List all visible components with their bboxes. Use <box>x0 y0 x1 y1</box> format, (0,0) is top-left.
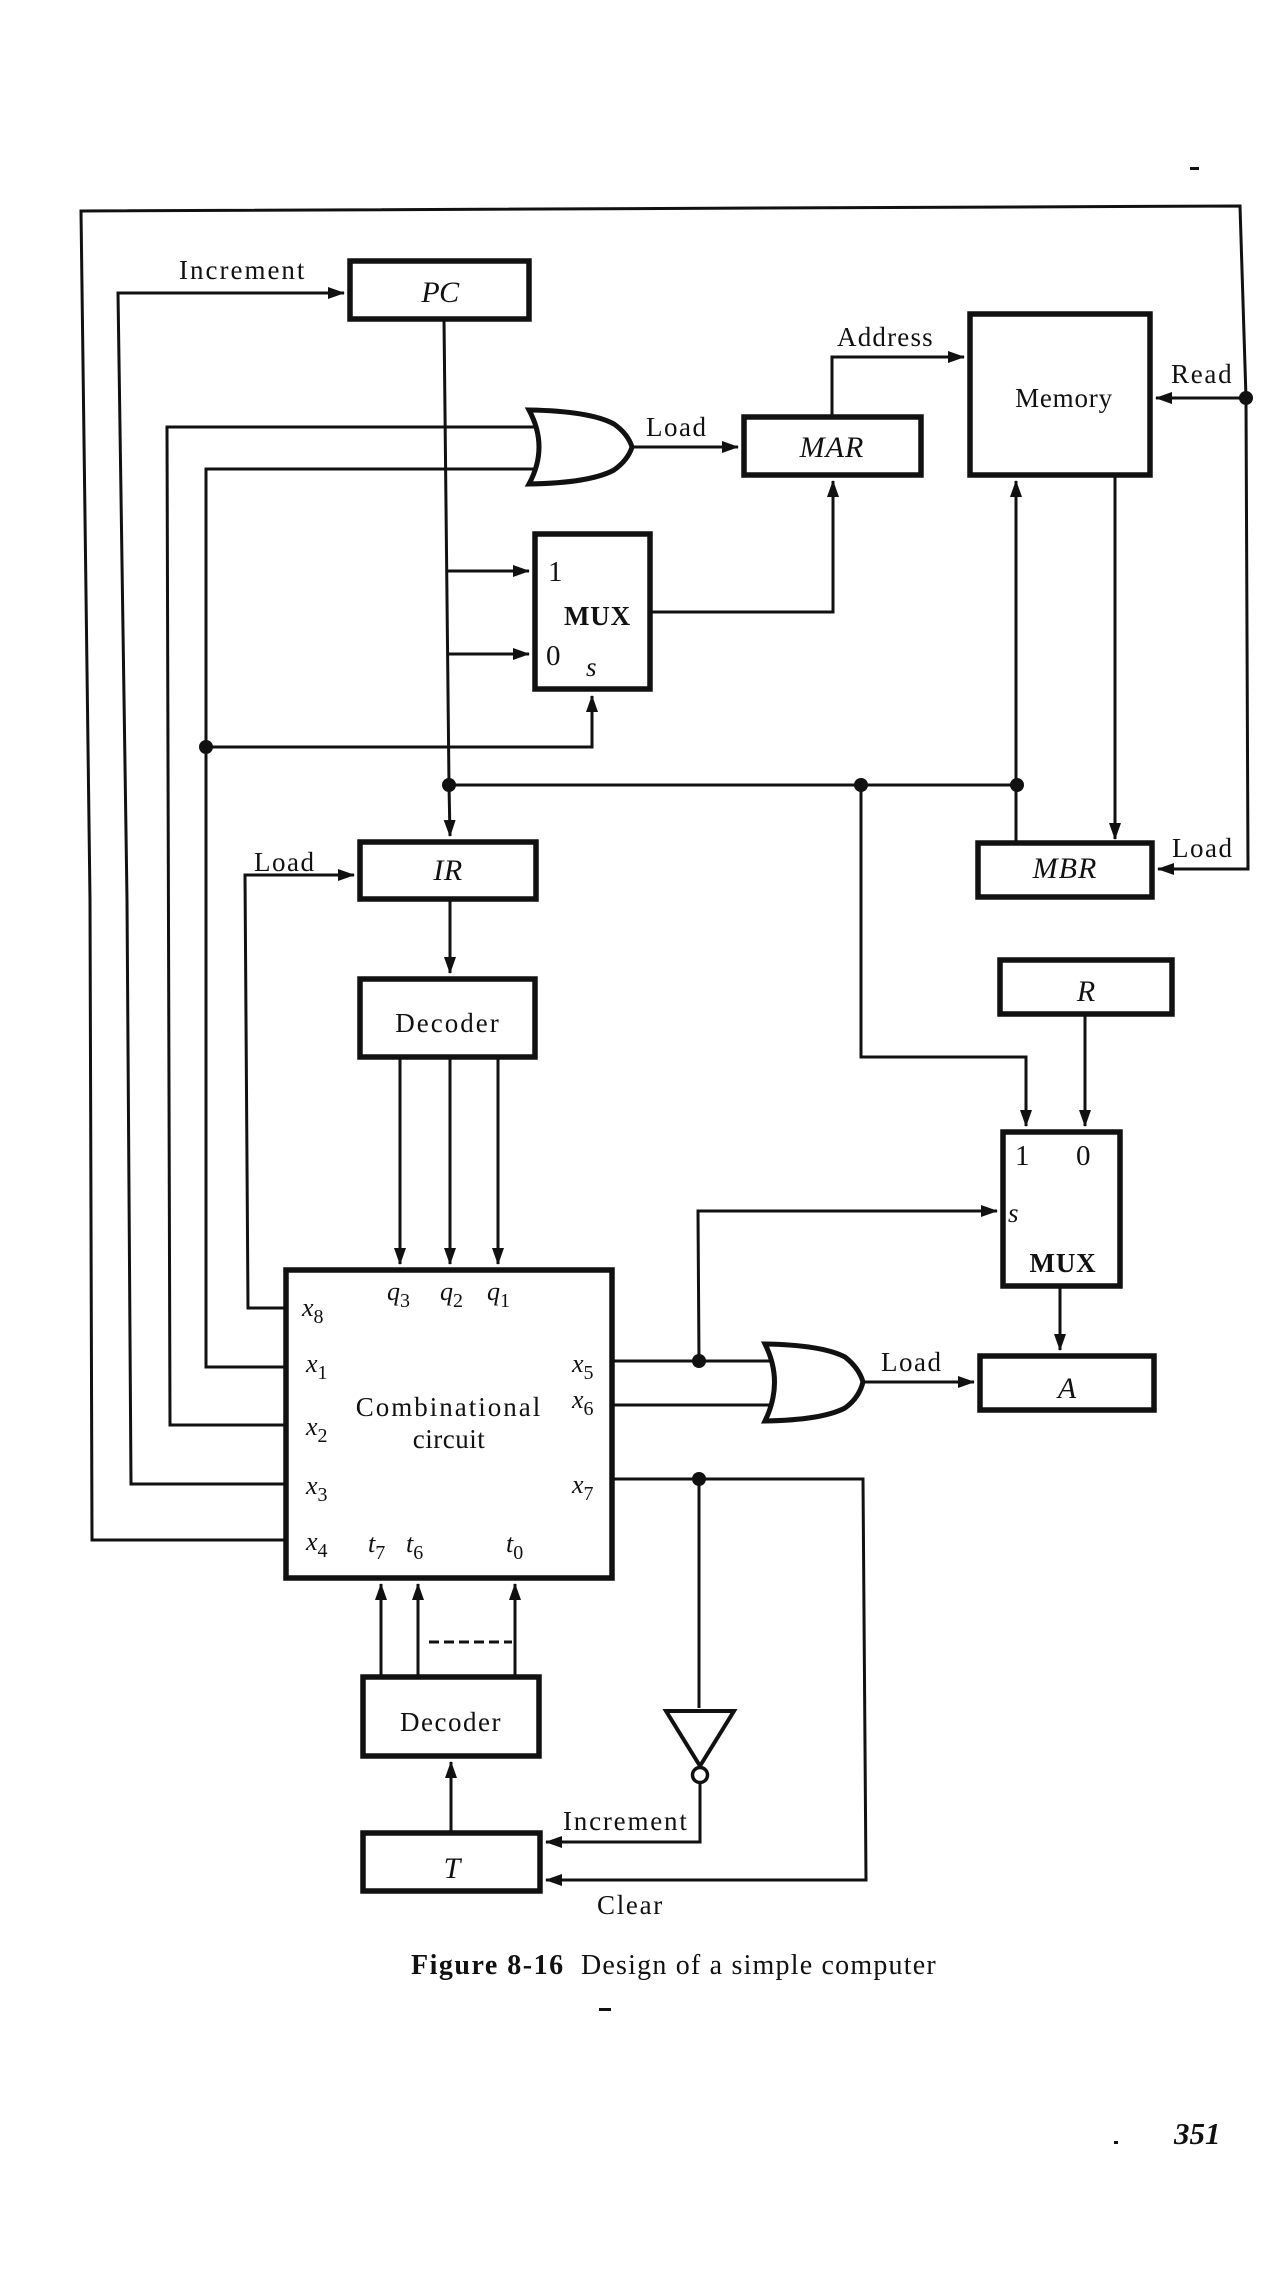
svg-text:351: 351 <box>1173 2116 1221 2151</box>
wire Read into Memory <box>1156 397 1246 400</box>
svg-text:PC: PC <box>420 276 460 309</box>
junction bus/MUX2 <box>854 778 868 792</box>
wire q3 Decoder1 to circuit <box>399 1057 402 1264</box>
wire q2 Decoder1 to circuit <box>449 1057 452 1264</box>
svg-text:MUX: MUX <box>1030 1248 1097 1278</box>
wire bus to MUX1 input 0 <box>447 653 529 656</box>
speck under caption <box>599 2008 611 2011</box>
svg-text:Decoder: Decoder <box>400 1707 502 1737</box>
svg-text:Decoder: Decoder <box>395 1008 500 1038</box>
svg-text:Memory: Memory <box>1015 383 1113 413</box>
wire OR2 output Load to A <box>863 1381 974 1384</box>
svg-text:Load: Load <box>881 1347 942 1377</box>
block Decoder2 <box>363 1677 539 1756</box>
svg-text:MUX: MUX <box>564 601 631 631</box>
wire IR to Decoder1 <box>449 899 452 973</box>
block Combinational circuit <box>286 1270 612 1578</box>
register MBR <box>978 843 1152 897</box>
wire x3 to Increment PC <box>118 293 344 1484</box>
register R <box>1000 960 1172 1014</box>
svg-text:Load: Load <box>646 412 707 442</box>
wire x7 to Clear of T <box>546 1479 866 1880</box>
inverter gate <box>666 1711 734 1783</box>
svg-text:MAR: MAR <box>799 431 865 464</box>
register PC <box>350 261 529 319</box>
wire R output to MUX2 input 0 <box>1084 1014 1087 1126</box>
svg-text:Address: Address <box>837 322 934 352</box>
wire inverter output Increment to T <box>546 1783 700 1842</box>
wire bus branch to MUX2 input 1 <box>861 785 1026 1126</box>
svg-text:Read: Read <box>1171 359 1233 389</box>
wire q1 Decoder1 to circuit <box>497 1057 500 1264</box>
svg-text:1: 1 <box>548 556 563 588</box>
register IR <box>360 842 536 899</box>
wire s input MUX1 from x1 junction <box>206 696 592 747</box>
svg-text:Load: Load <box>1172 833 1233 863</box>
wire x5 branch to MUX2 s input <box>698 1211 997 1361</box>
svg-text:Increment: Increment <box>179 255 306 285</box>
block Memory <box>970 314 1150 475</box>
wire x1 to OR1 bottom input <box>206 469 540 1367</box>
register MAR <box>744 417 921 475</box>
speck near top right <box>1190 167 1199 170</box>
svg-text:Clear: Clear <box>597 1890 664 1920</box>
svg-text:1: 1 <box>1015 1140 1030 1172</box>
wire Memory output to MBR <box>1114 474 1117 839</box>
wire t0 Decoder2 to circuit <box>514 1584 517 1677</box>
junction x7/inverter <box>692 1472 706 1486</box>
junction Read <box>1239 391 1253 405</box>
svg-text:Design of a simple computer: Design of a simple computer <box>581 1950 937 1981</box>
svg-text:Increment: Increment <box>563 1806 689 1836</box>
wire OR1 output Load to MAR <box>632 446 738 449</box>
speck left of 351 <box>1114 2141 1118 2144</box>
wire outer loop x4 to top frame to Read/Load-MBR <box>81 206 1248 1540</box>
wire x5 to OR2 top input <box>612 1360 778 1363</box>
or-gate G2 (Load A) <box>765 1344 863 1421</box>
svg-text:R: R <box>1076 975 1095 1008</box>
svg-text:T: T <box>444 1852 463 1885</box>
wire t6 Decoder2 to circuit <box>417 1584 420 1677</box>
svg-text:A: A <box>1056 1372 1077 1405</box>
wire t7 Decoder2 to circuit <box>380 1584 383 1677</box>
register T <box>363 1833 540 1891</box>
mux MUX1 <box>535 534 650 689</box>
svg-text:s: s <box>1008 1198 1019 1228</box>
wire T to Decoder2 <box>450 1762 453 1833</box>
wire data bus <box>449 784 1018 787</box>
svg-text:circuit: circuit <box>413 1424 485 1454</box>
wire x6 to OR2 bottom input <box>612 1404 778 1407</box>
svg-text:Figure 8-16: Figure 8-16 <box>411 1950 565 1981</box>
wire x7 branch to inverter <box>698 1479 701 1708</box>
register A <box>980 1356 1154 1410</box>
wire bus up into Memory <box>1015 481 1018 845</box>
svg-text:Load: Load <box>254 847 315 877</box>
svg-text:MBR: MBR <box>1032 852 1098 885</box>
wire dashed t lines <box>429 1641 512 1644</box>
junction x1/s <box>199 740 213 754</box>
wire Address MAR to Memory <box>832 357 964 417</box>
svg-text:s: s <box>586 652 597 682</box>
wire x8 to Load IR <box>245 875 354 1308</box>
wire x2 to OR1 top input <box>167 427 540 1425</box>
junction x5/s <box>692 1354 706 1368</box>
wire PC output down to IR <box>444 319 450 836</box>
wire MUX1 output to MAR bottom <box>650 481 833 612</box>
or-gate G1 (Load MAR) <box>529 410 632 484</box>
svg-text:IR: IR <box>432 854 462 887</box>
svg-text:Combinational: Combinational <box>356 1392 542 1422</box>
svg-text:0: 0 <box>546 640 561 672</box>
junction bus/Memory-in <box>1010 778 1024 792</box>
svg-text:0: 0 <box>1076 1140 1091 1172</box>
mux MUX2 <box>1003 1132 1120 1286</box>
block Decoder1 <box>360 979 535 1057</box>
wire MUX2 output to A <box>1059 1286 1062 1350</box>
wire PC to MUX1 input 1 <box>446 570 529 573</box>
junction PC/bus <box>442 778 456 792</box>
